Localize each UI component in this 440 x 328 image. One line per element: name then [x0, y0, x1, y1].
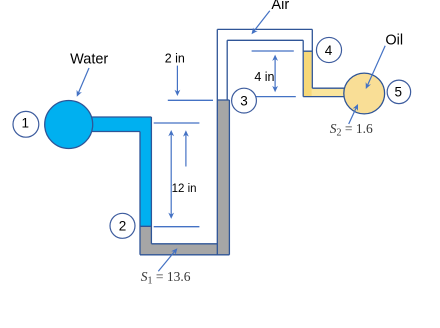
svg-text:3: 3 — [240, 94, 248, 109]
svg-text:2 in: 2 in — [165, 51, 185, 65]
svg-text:S1 = 13.6: S1 = 13.6 — [141, 269, 191, 287]
svg-text:12 in: 12 in — [172, 183, 197, 195]
svg-text:Air: Air — [271, 0, 289, 13]
svg-text:4 in: 4 in — [254, 70, 274, 84]
svg-text:S2 = 1.6: S2 = 1.6 — [330, 121, 373, 139]
svg-text:4: 4 — [325, 43, 333, 58]
svg-text:1: 1 — [22, 115, 30, 130]
svg-text:2: 2 — [119, 219, 127, 234]
svg-text:Water: Water — [70, 52, 108, 68]
svg-text:5: 5 — [394, 84, 402, 99]
svg-text:Oil: Oil — [385, 33, 403, 49]
